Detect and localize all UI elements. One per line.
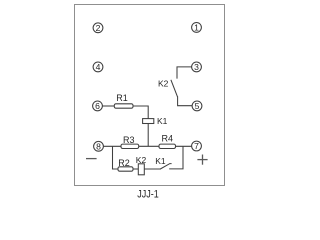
- svg-text:6: 6: [95, 101, 100, 111]
- svg-text:5: 5: [195, 101, 200, 111]
- wire from terminal 3 to contact K2: [177, 67, 192, 79]
- resistor R4: [159, 144, 176, 148]
- svg-text:K1: K1: [157, 116, 168, 126]
- svg-text:R3: R3: [123, 135, 135, 145]
- svg-text:K2: K2: [136, 155, 147, 165]
- svg-text:1: 1: [194, 22, 199, 32]
- terminal 8: [94, 141, 104, 151]
- wire from K2 coil to contact K1: [144, 168, 161, 170]
- svg-text:JJJ-1: JJJ-1: [137, 189, 159, 200]
- svg-text:4: 4: [96, 62, 101, 72]
- svg-text:R4: R4: [162, 134, 174, 144]
- terminal 1: [192, 23, 202, 33]
- wire from R1 to corner and down to K1 coil: [133, 106, 148, 119]
- contact K1 fixed lead and wire up to node: [169, 146, 183, 169]
- svg-text:3: 3: [194, 62, 199, 72]
- svg-text:R1: R1: [116, 93, 128, 103]
- svg-text:R2: R2: [118, 158, 130, 168]
- relay coil K2: [138, 164, 144, 175]
- resistor R1: [114, 104, 133, 108]
- svg-text:8: 8: [96, 141, 101, 151]
- svg-text:7: 7: [194, 141, 199, 151]
- wire from contact K2 to terminal 5: [178, 96, 193, 105]
- svg-text:2: 2: [96, 23, 101, 33]
- polarity minus at terminal 8: [86, 158, 97, 160]
- contact K1 blade: [160, 164, 171, 169]
- wire from terminal 8 to R3: [103, 145, 121, 147]
- svg-text:K2: K2: [158, 78, 169, 88]
- polarity plus at terminal 7: [197, 159, 207, 161]
- terminal 7: [192, 141, 202, 151]
- resistor R3: [121, 144, 139, 148]
- terminal 5: [192, 101, 202, 111]
- relay coil K1: [143, 119, 154, 124]
- wire from R4 to terminal 7: [176, 145, 192, 147]
- terminal 2: [93, 23, 103, 33]
- terminal 3: [192, 62, 202, 72]
- terminal 4: [93, 62, 103, 72]
- wire from K1 coil down to node between R3 and R4: [147, 124, 149, 147]
- svg-text:K1: K1: [155, 156, 166, 166]
- wire from R2 to K2 coil: [133, 168, 138, 170]
- wire from terminal 6 to R1: [102, 105, 114, 107]
- terminal 6: [93, 101, 103, 111]
- resistor R2: [118, 167, 133, 171]
- wire from R3 to R4 through node: [139, 145, 159, 147]
- wire branch down from node at x=112.5: [113, 146, 119, 169]
- contact K2 blade: [171, 80, 178, 97]
- border frame of relay case: [75, 5, 225, 186]
